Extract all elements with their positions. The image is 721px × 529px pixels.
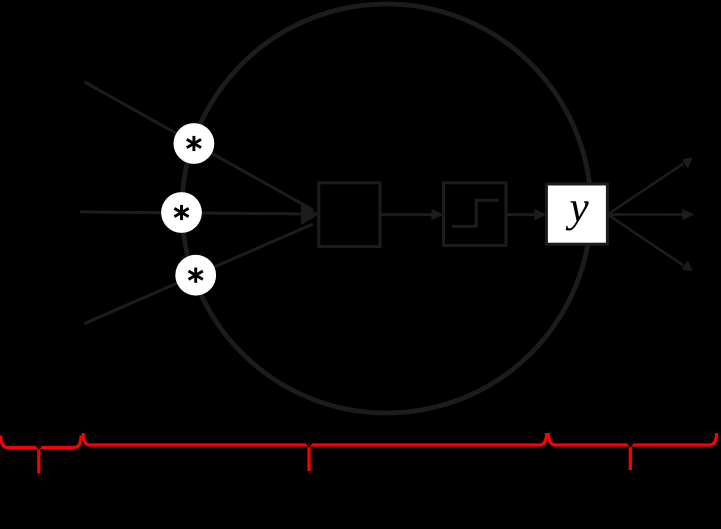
output box y [546, 184, 607, 244]
arrowhead into summation box [301, 203, 319, 225]
wire output fan down [608, 214, 684, 265]
arrowhead fan down [682, 260, 693, 271]
brace left cusp notch [36, 446, 42, 450]
arrowhead fan up [682, 157, 693, 168]
wire input x3 [84, 224, 313, 324]
weight multiplier node w1 [174, 123, 215, 164]
arrowhead into activation box [432, 209, 444, 221]
weight multiplier node w3 [175, 255, 216, 296]
red brace right [549, 433, 717, 470]
arrowhead into output box [534, 209, 546, 221]
wire input x2 [80, 212, 313, 214]
wire output fan up [608, 164, 684, 215]
step function symbol [452, 200, 499, 226]
wire activation to output [506, 213, 536, 216]
brace right cusp notch [627, 444, 633, 448]
wire output fan mid [608, 213, 685, 216]
brace middle cusp notch [306, 444, 312, 448]
wire input x1 [84, 82, 313, 210]
weight multiplier node w2 [161, 192, 202, 233]
summation box [319, 183, 380, 247]
neuron body circle [182, 4, 591, 413]
red brace left [1, 436, 81, 474]
activation box [444, 183, 507, 246]
svg-text:y: y [565, 183, 589, 231]
red brace middle [83, 433, 547, 471]
arrowhead fan mid [682, 209, 694, 221]
wire summation to activation [380, 213, 433, 216]
